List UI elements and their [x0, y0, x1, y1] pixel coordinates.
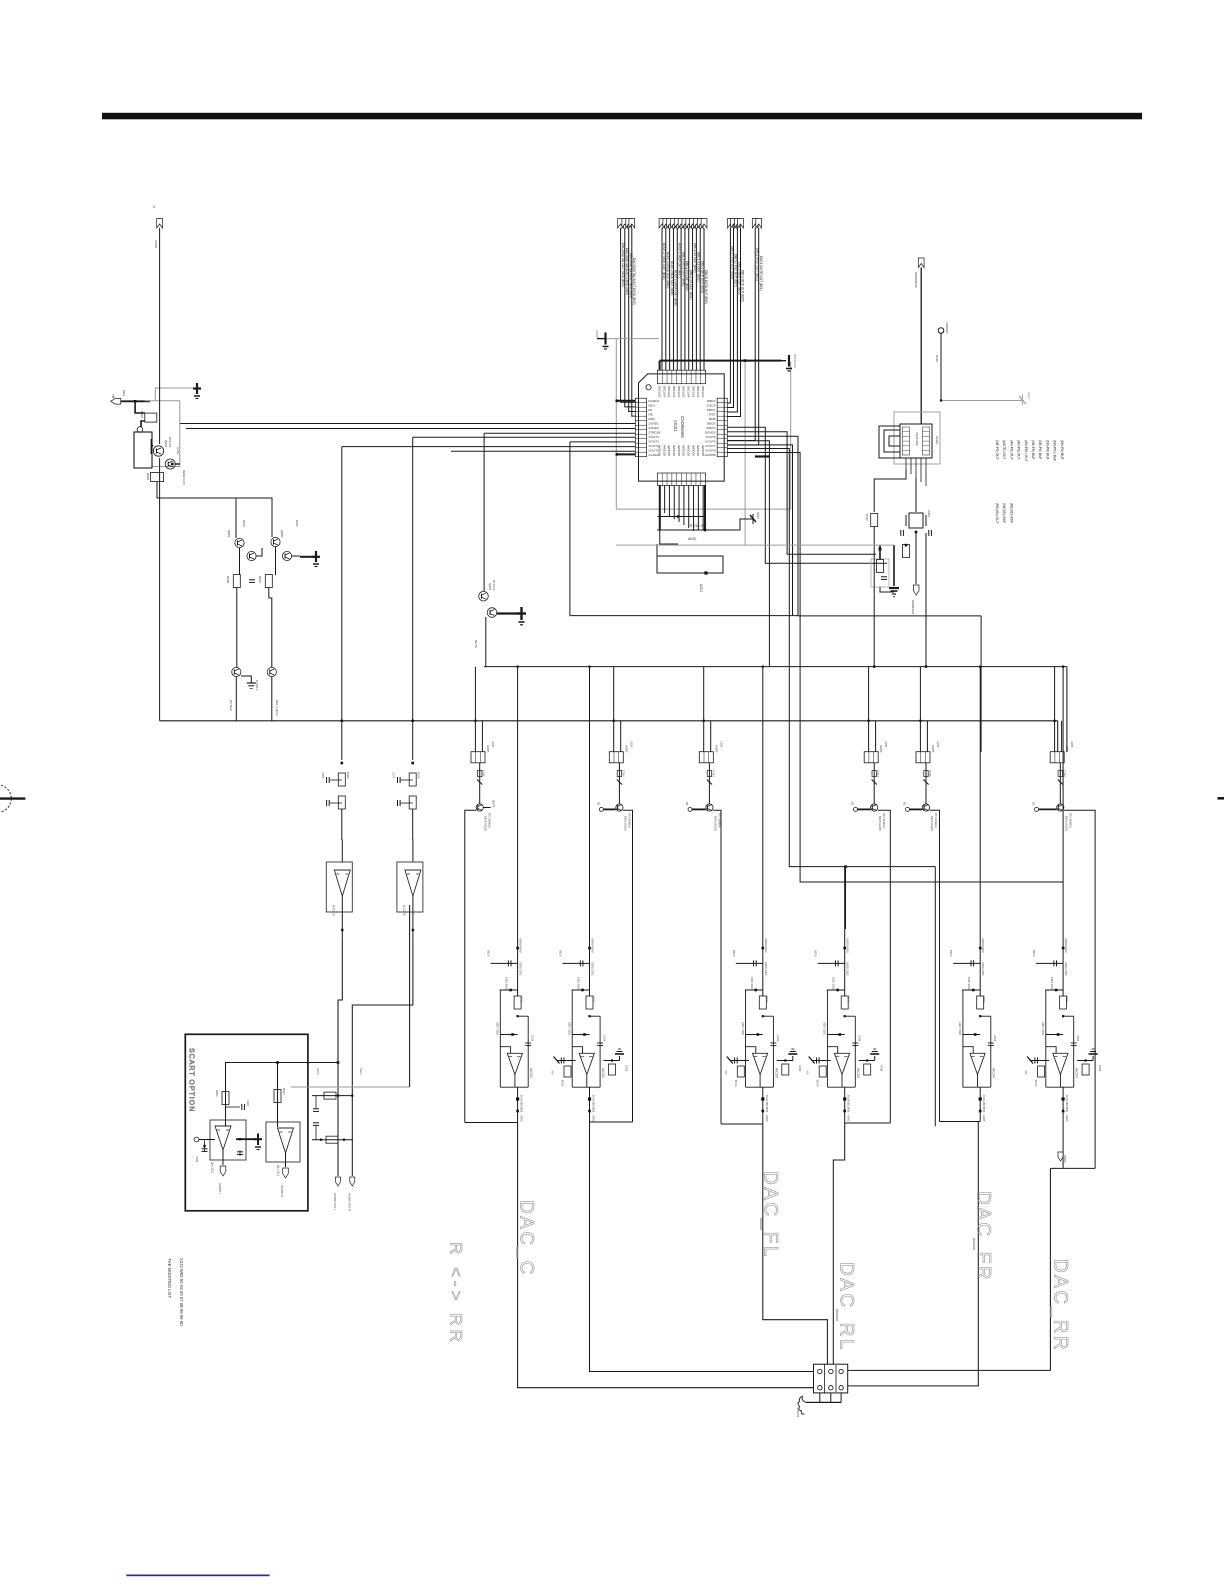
svg-text:AVDD2B: AVDD2B — [662, 445, 666, 456]
channel 4 feedback right leg — [854, 1016, 856, 1087]
channel 2 mid tie wire — [572, 1034, 589, 1036]
svg-text:B2: B2 — [596, 802, 600, 806]
wire from regulator output down — [157, 482, 236, 538]
bus wires group D to IC right pins — [727, 228, 755, 441]
channel 1 feeder wires from buses — [474, 667, 476, 752]
svg-text:A2D7 1562: A2D7 1562 — [958, 1022, 962, 1036]
svg-text:AIC03: AIC03 — [856, 1068, 860, 1078]
svg-text:A2RD/A00U: A2RD/A00U — [519, 938, 523, 953]
channel 6 feedback bottom wire — [1046, 1086, 1074, 1088]
IC AIC01 pin-1 index circle — [646, 385, 651, 390]
svg-text:MUTE/A: MUTE/A — [229, 700, 233, 711]
svg-text:AOUT2 DATA OUT (B38): AOUT2 DATA OUT (B38) — [674, 270, 678, 306]
IC AIC01 bottom pin row — [657, 473, 705, 485]
channel 3 series bead — [708, 763, 710, 804]
channel 3 DAC output main wire — [762, 667, 764, 996]
clock spare wire to ch5 — [925, 533, 927, 667]
output wire ch2 to connector — [590, 1122, 814, 1372]
svg-text:A2D7 1562: A2D7 1562 — [741, 1022, 745, 1036]
svg-text:B2A5 (A225): B2A5 (A225) — [930, 816, 934, 831]
svg-text:AOUT2 LRCK OUT (B40): AOUT2 LRCK OUT (B40) — [666, 252, 670, 288]
svg-text:C336: C336 — [798, 1065, 802, 1072]
crystal X301 — [909, 513, 923, 528]
svg-text:(AN-P6) OUT: (AN-P6) OUT — [1009, 440, 1013, 460]
svg-text:2TRD1B: 2TRD1B — [648, 430, 660, 434]
svg-text:SCART OPTION: SCART OPTION — [188, 1048, 195, 1112]
svg-text:-6V: -6V — [724, 1070, 728, 1075]
svg-text:A2RD/A00U: A2RD/A00U — [981, 938, 985, 953]
IC302 bottom pin wires — [905, 458, 907, 470]
SCART minus supply cap — [204, 1140, 206, 1153]
osc components capacitors — [877, 560, 884, 573]
svg-text:B2: B2 — [685, 802, 689, 806]
channel 5 op-amp AIC04 — [970, 1053, 985, 1074]
clock return corner from IC pin10 — [569, 442, 571, 616]
svg-text:(DN-P6) BUF: (DN-P6) BUF — [1060, 440, 1064, 460]
svg-text:C343: C343 — [711, 770, 715, 777]
svg-text:AH-IC1: AH-IC1 — [276, 1165, 280, 1176]
grey AUX arrow — [1019, 396, 1026, 404]
AUX* arrow right of supply — [740, 518, 753, 520]
channel 6 series resistor R641 — [1060, 996, 1067, 1009]
svg-text:NE: NE — [648, 412, 652, 416]
SCART branch to op-amp 2 — [277, 1063, 279, 1128]
channel 4 feedback capacitor — [852, 1042, 858, 1044]
svg-text:BC0A: BC0A — [816, 1080, 819, 1087]
svg-text:-6V: -6V — [806, 1070, 810, 1075]
svg-text:C333: C333 — [776, 1035, 780, 1042]
svg-text:VOUT8: VOUT8 — [705, 448, 716, 452]
wire IC right to nest v765 — [727, 427, 887, 563]
svg-text:Q901: Q901 — [164, 440, 168, 448]
svg-text:IPBCK: IPBCK — [706, 426, 716, 430]
svg-text:DBCL FS OUT (B35): DBCL FS OUT (B35) — [685, 261, 689, 291]
svg-text:A2R5: A2R5 — [592, 1115, 596, 1122]
svg-text:Q903: Q903 — [227, 530, 231, 538]
thick analog supply vertical from IC bottom — [659, 485, 661, 530]
svg-text:DBCL / FS2 OUT (B27): DBCL / FS2 OUT (B27) — [734, 254, 738, 287]
channel 2 loop bottom wire — [590, 1121, 633, 1123]
svg-text:DBCL S1 OUT (B32): DBCL S1 OUT (B32) — [697, 252, 701, 281]
channel 4 DAC output main wire — [844, 867, 846, 996]
channel 6 feedback top wire — [1063, 1015, 1074, 1017]
channel 6 input pin — [1035, 807, 1039, 811]
channel 4 feedback input wire — [827, 989, 845, 991]
svg-text:1562 3022: 1562 3022 — [967, 977, 971, 990]
svg-text:L305: L305 — [491, 741, 495, 748]
channel 3 feedback capacitor — [770, 1042, 776, 1044]
svg-text:DBCLKA: DBCLKA — [696, 386, 700, 397]
svg-text:X3J3 W82-94 H5 05 07 0B 99 99: X3J3 W82-94 H5 05 07 0B 99 99 9D — [179, 1258, 184, 1326]
SCART resistor R921 — [222, 1092, 229, 1105]
svg-text:DBCK: DBCK — [707, 421, 717, 425]
svg-text:CXD9556M: CXD9556M — [680, 416, 685, 438]
wire IC right to nest v787 — [727, 432, 876, 554]
channel 2 op-amp AIC02 — [579, 1053, 594, 1074]
channel 2 feeder filter box FB302 — [609, 752, 623, 763]
left chain 1 upper wire — [341, 447, 343, 760]
svg-text:A2RB: A2RB — [714, 745, 718, 752]
svg-text:(NE-P6) BUF: (NE-P6) BUF — [1038, 440, 1042, 459]
svg-text:C326: C326 — [625, 1065, 629, 1072]
channel 6 mute transistor Q361 — [1057, 804, 1064, 811]
mute driver transistor Q910 — [479, 591, 489, 601]
left chain 1 op-amp A-IC03 — [334, 870, 350, 896]
capacitor C905 — [249, 579, 255, 581]
channel 6 feeder filter box FB306 — [1050, 752, 1064, 763]
channel 1 series bead — [479, 763, 481, 804]
svg-text:AVDD2B: AVDD2B — [677, 445, 681, 456]
svg-text:C363: C363 — [1076, 1035, 1080, 1042]
channel 4 feeder filter box FB304 — [864, 752, 878, 763]
channel 5 feedback input wire — [962, 989, 980, 991]
wire IC right VOUT to DAC_FR nest — [727, 449, 935, 867]
top title rule — [102, 113, 1142, 120]
channel 1 feedback top wire — [518, 1015, 529, 1017]
svg-text:DBCL S3 OUT (B34): DBCL S3 OUT (B34) — [689, 270, 693, 299]
mute rail down to bus — [485, 617, 487, 667]
SCART option enclosure — [185, 1034, 308, 1211]
svg-text:6N1A (B2 B09): 6N1A (B2 B09) — [847, 1095, 851, 1112]
channel 2 input jog to op-amp — [572, 1047, 582, 1054]
svg-text:DAC_C: DAC_C — [516, 1200, 537, 1277]
svg-text:SCART L: SCART L — [218, 1183, 222, 1195]
osc left grey return — [745, 544, 894, 546]
svg-text:6N1A (B2 B09): 6N1A (B2 B09) — [520, 1095, 524, 1112]
svg-text:AIC04: AIC04 — [1075, 1068, 1079, 1078]
svg-text:CN301: CN301 — [796, 1408, 800, 1418]
channel 4 op-amp supply decoupling right — [859, 1060, 875, 1062]
connector flag B+ input — [111, 399, 121, 405]
transistor Q905 — [271, 537, 280, 546]
svg-text:A2C4: A2C4 — [699, 584, 703, 592]
thick supply wire to IC pin 1 — [617, 400, 636, 402]
channel 2 op-amp supply decoupling left — [557, 1060, 576, 1062]
channel 5 feedback right leg — [990, 1016, 992, 1087]
svg-text:AGND: AGND — [595, 330, 599, 338]
svg-text:DBCLKA: DBCLKA — [658, 386, 662, 397]
channel 1 op-amp AIC04 — [507, 1053, 522, 1074]
svg-text:A22Y: A22Y — [1027, 392, 1031, 399]
audio network caps — [313, 1108, 319, 1110]
channel 5 output wire down — [979, 1087, 981, 1121]
wire IC right nest extra 1 — [727, 441, 769, 667]
svg-text:DGND2: DGND2 — [705, 430, 716, 434]
svg-text:MD1: MD1 — [648, 403, 655, 407]
resistor R906 — [233, 575, 240, 588]
channel 3 series resistor R341 — [759, 996, 766, 1009]
grey net ground symbol — [781, 360, 786, 362]
pin node — [137, 427, 143, 433]
svg-text:1562 3022: 1562 3022 — [577, 977, 581, 990]
channel 4 feedback bottom wire — [827, 1086, 855, 1088]
svg-text:VOUT7: VOUT7 — [705, 444, 716, 448]
crystal X301 wire down — [920, 418, 922, 424]
channel 2 feedback right leg — [599, 1016, 601, 1087]
svg-text:R321: R321 — [592, 996, 596, 1003]
svg-text:DAC/DIGITAL OUT MCK (B45): DAC/DIGITAL OUT MCK (B45) — [621, 243, 625, 287]
svg-text:VOUT1: VOUT1 — [648, 448, 659, 452]
channel 4 output wire down — [844, 1087, 846, 1123]
bus end corner to ch6 feeder — [1066, 667, 1068, 752]
wire IC left pin9 corner down x412.7 — [413, 436, 636, 438]
channel 4 series bead — [873, 763, 875, 804]
resistor R901 — [145, 413, 157, 422]
upper clock return h615 left part — [570, 615, 798, 617]
svg-text:B2C4: B2C4 — [732, 950, 736, 957]
test point circle — [938, 328, 944, 334]
svg-text:B2C4: B2C4 — [1032, 950, 1036, 957]
svg-text:BC0A: BC0A — [561, 1080, 564, 1087]
channel 1 feedback capacitor — [525, 1042, 531, 1044]
left chain 2 junction — [411, 762, 414, 765]
svg-text:(DN-P6) BUF: (DN-P6) BUF — [1045, 440, 1049, 460]
SCART resistor R922 — [274, 1090, 281, 1103]
svg-text:AVDD2B: AVDD2B — [687, 445, 691, 456]
channel 4 loop leg wire — [878, 810, 891, 1123]
left chain 2 op-amp output — [412, 896, 414, 940]
svg-text:R901: R901 — [140, 411, 144, 419]
right registration mark — [1218, 797, 1224, 800]
svg-text:B2A5 (A225): B2A5 (A225) — [623, 816, 627, 831]
channel 4 feedback top wire — [845, 1015, 856, 1017]
channel 3 input pin — [688, 807, 692, 811]
svg-text:DBCLKA: DBCLKA — [662, 386, 666, 397]
svg-text:C342: C342 — [621, 770, 625, 777]
left registration mark — [0, 785, 11, 813]
svg-text:DBCK: DBCK — [707, 408, 717, 412]
audio output line L — [337, 1056, 339, 1176]
SCART cap C925 — [239, 1150, 241, 1156]
channel 6 feeder wires from buses — [1054, 667, 1056, 752]
output wire DAC_RR to connector — [848, 1168, 1051, 1370]
channel 2 series bead — [618, 763, 620, 804]
bottom blue rule — [126, 1575, 269, 1577]
SCART input pin — [194, 1137, 199, 1142]
svg-text:THE MODIFIED LIST: THE MODIFIED LIST — [167, 1258, 172, 1298]
left chain 1 cap stub 2 — [330, 802, 342, 804]
channel 3 op-amp supply decoupling right — [777, 1060, 793, 1062]
channel 3 input node stub — [736, 962, 763, 964]
svg-text:B2: B2 — [851, 802, 855, 806]
svg-text:BC0A: BC0A — [1034, 1080, 1037, 1087]
mute line down to ch5 feeder — [980, 616, 982, 752]
svg-text:(RE(06)) OUT: (RE(06)) OUT — [995, 503, 999, 524]
svg-text:2GND2: 2GND2 — [648, 426, 659, 430]
svg-text:AOUT2 / MCK OUT (B41): AOUT2 / MCK OUT (B41) — [662, 243, 666, 280]
svg-text:B2A5 (A225): B2A5 (A225) — [484, 816, 488, 831]
channel 5 feedback left leg — [962, 990, 964, 1087]
svg-text:AOUT2 BCK OUT (B39): AOUT2 BCK OUT (B39) — [670, 261, 674, 295]
svg-text:A2RD/A00U: A2RD/A00U — [1064, 938, 1068, 953]
svg-text:DAC_FR: DAC_FR — [973, 1191, 994, 1282]
left chain 2 op-amp A-IC05 — [405, 870, 421, 896]
svg-text:B2A5 (A225): B2A5 (A225) — [1064, 816, 1068, 831]
audio R output flag — [350, 1177, 355, 1186]
svg-text:DBCL BCK OUT (B31): DBCL BCK OUT (B31) — [700, 261, 704, 293]
svg-text:B2A5 (A225): B2A5 (A225) — [878, 816, 882, 831]
svg-text:IRI: IRI — [648, 408, 652, 412]
channel 5 input node stub — [953, 962, 980, 964]
audio network resistor R926 — [326, 1136, 338, 1143]
grey stub to digital ground — [155, 388, 193, 401]
svg-text:A2RB: A2RB — [879, 745, 883, 752]
channel 5 loop bottom wire — [940, 1121, 981, 1123]
svg-text:VOUT2: VOUT2 — [648, 444, 659, 448]
channel 6 input jog to op-amp — [1046, 1047, 1056, 1054]
thick clock wire down — [920, 268, 922, 425]
resistor R907 — [265, 575, 272, 588]
bus wires group B to IC top pins — [661, 228, 663, 370]
svg-text:6N1A (B2 B09): 6N1A (B2 B09) — [592, 1095, 596, 1112]
supply loop upper wire — [657, 516, 705, 518]
channel 5 feeder filter box FB305 — [916, 752, 930, 763]
svg-text:A2RB: A2RB — [486, 745, 490, 752]
channel 5 mid tie wire — [963, 1034, 980, 1036]
svg-text:AVDD2B: AVDD2B — [701, 445, 705, 456]
supply branch rectangle R-AVDD — [657, 544, 690, 556]
audio network resistor R925 — [324, 1092, 336, 1099]
svg-text:DGND1: DGND1 — [648, 399, 659, 403]
svg-text:(MUTE) OUT: (MUTE) OUT — [1002, 440, 1006, 459]
channel 6 input node stub — [1036, 962, 1063, 964]
svg-text:DBCLKA: DBCLKA — [667, 386, 671, 397]
svg-text:(AN-P61) OUT: (AN-P61) OUT — [1024, 440, 1028, 462]
svg-text:A2R5: A2R5 — [765, 1115, 769, 1122]
channel 5 series bead — [925, 763, 927, 804]
svg-text:DBCL LRCK OUT (B36): DBCL LRCK OUT (B36) — [681, 252, 685, 286]
svg-text:C921: C921 — [246, 1100, 250, 1107]
svg-text:MDB: MDB — [709, 417, 716, 421]
SCART op-amp AH-IC1b — [266, 1122, 300, 1162]
channel 5 op-amp output wire — [977, 1075, 979, 1088]
svg-text:DBCLKA: DBCLKA — [672, 386, 676, 397]
channel 3 mid tie wire — [746, 1034, 763, 1036]
audio output line R — [351, 1061, 353, 1176]
svg-text:C346: C346 — [880, 1065, 884, 1072]
resistor R903 — [151, 473, 164, 482]
audio L output flag — [336, 1177, 341, 1186]
svg-text:C365: C365 — [321, 772, 325, 779]
channel 1 op-amp output wire — [514, 1075, 516, 1088]
wire branch to second pair — [236, 498, 272, 537]
svg-text:C341: C341 — [482, 770, 486, 777]
svg-text:R310: R310 — [865, 514, 869, 521]
svg-text:AVDD2B: AVDD2B — [691, 445, 695, 456]
svg-text:AVDD2B: AVDD2B — [658, 445, 662, 456]
grey loop around regulator — [145, 401, 180, 467]
svg-text:C344: C344 — [876, 770, 880, 777]
svg-text:A2RD 1002: A2RD 1002 — [764, 962, 768, 976]
channel 2 input pin — [599, 807, 603, 811]
left main vertical wire lower — [159, 458, 161, 721]
svg-text:DTC144EKA: DTC144EKA — [882, 813, 886, 828]
svg-text:(RE(06)) BUF: (RE(06)) BUF — [1009, 503, 1013, 523]
svg-text:B GND A: B GND A — [255, 680, 259, 691]
left chain 2 feedback box — [397, 862, 423, 912]
svg-text:2GND1: 2GND1 — [648, 421, 659, 425]
svg-text:DTC144EKA: DTC144EKA — [627, 813, 631, 828]
svg-text:A2RB: A2RB — [1065, 745, 1069, 752]
svg-text:B2: B2 — [903, 802, 907, 806]
SCART op-amp1 output flag — [222, 1150, 224, 1165]
channel 1 input pin — [483, 807, 490, 809]
channel 3 feedback bottom wire — [746, 1086, 774, 1088]
channel 5 input pin — [906, 807, 910, 811]
channel 5 mute transistor Q351 — [922, 804, 929, 811]
channel 3 mute transistor Q331 — [706, 804, 713, 811]
svg-text:A2D7 1562: A2D7 1562 — [823, 1022, 827, 1036]
wire IC right VOUT to DAC_RR nest — [727, 453, 1063, 883]
channel 2 op-amp supply decoupling right — [604, 1060, 620, 1062]
svg-text:A2R5: A2R5 — [982, 1115, 986, 1122]
channel 1 loop bottom wire — [465, 1122, 518, 1124]
svg-text:A-IC05: A-IC05 — [402, 905, 406, 916]
channel 6 loop leg wire — [1064, 810, 1095, 1168]
left chain 1 cap stub — [330, 779, 342, 781]
svg-text:C923: C923 — [195, 1156, 199, 1163]
svg-text:CSCA: CSCA — [707, 403, 717, 407]
resistor R313 — [903, 545, 910, 558]
svg-text:B2A5 (A225): B2A5 (A225) — [713, 816, 717, 831]
channel 5 feedback top wire — [980, 1015, 991, 1017]
oscillator feedback nest — [884, 430, 900, 452]
transistor Q904 — [247, 551, 256, 560]
svg-text:R311: R311 — [520, 996, 524, 1003]
svg-text:MUTE: MUTE — [492, 800, 496, 808]
left chain 1 resistor A — [338, 773, 345, 786]
channel 1 feedback input wire — [500, 989, 518, 991]
svg-text:DOM24CO: DOM24CO — [911, 600, 915, 615]
svg-text:+B: +B — [111, 394, 115, 399]
svg-text:DBCLKA: DBCLKA — [677, 386, 681, 397]
svg-text:AGHDB: AGHDB — [705, 453, 716, 457]
grey AUX wire — [941, 400, 1022, 402]
tie bar near right pins — [755, 455, 770, 457]
svg-text:A2RD 1002: A2RD 1002 — [519, 962, 523, 976]
channel 6 feedback right leg — [1073, 1016, 1075, 1087]
svg-text:B2C4: B2C4 — [949, 950, 953, 957]
current mirror lower transistor Q908 — [269, 598, 272, 668]
junction dots osc — [905, 544, 908, 547]
channel 2 loop leg wire — [623, 810, 633, 1122]
channel 6 feedback capacitor — [1071, 1042, 1077, 1044]
top-left connector flag — [157, 219, 163, 229]
IC AIC01 right pin column — [717, 398, 727, 457]
wire IC left pin10 corner down x569.9 — [570, 441, 636, 443]
channel 4 input jog to op-amp — [827, 1047, 837, 1054]
wire IC left pin11 corner down x341.8 — [342, 446, 636, 448]
osc lower wire left — [874, 470, 906, 512]
transistor Q903 — [235, 538, 244, 547]
resistor R310 — [871, 514, 878, 527]
digital ground symbol — [193, 387, 201, 389]
svg-text:A2RB: A2RB — [931, 745, 935, 752]
channel 1 DAC output main wire — [517, 667, 519, 996]
svg-text:AVDD C107: AVDD C107 — [182, 470, 186, 485]
thick emitter wire — [151, 439, 153, 454]
svg-text:DAC1 /RST OUT (B22): DAC1 /RST OUT (B22) — [755, 248, 759, 281]
svg-text:A+5V: A+5V — [176, 447, 180, 454]
svg-text:R365: R365 — [346, 772, 350, 779]
svg-text:A2RD 1002: A2RD 1002 — [846, 962, 850, 976]
svg-text:DTC144EKA: DTC144EKA — [934, 813, 938, 828]
left chain 1 junction — [341, 762, 344, 765]
svg-text:(AN-P6) OUT: (AN-P6) OUT — [1017, 440, 1021, 460]
left chain 2 wire to op-amp — [412, 809, 414, 840]
oscillator IC IC302 body — [900, 424, 932, 458]
channel 3 loop leg wire — [713, 810, 721, 1124]
